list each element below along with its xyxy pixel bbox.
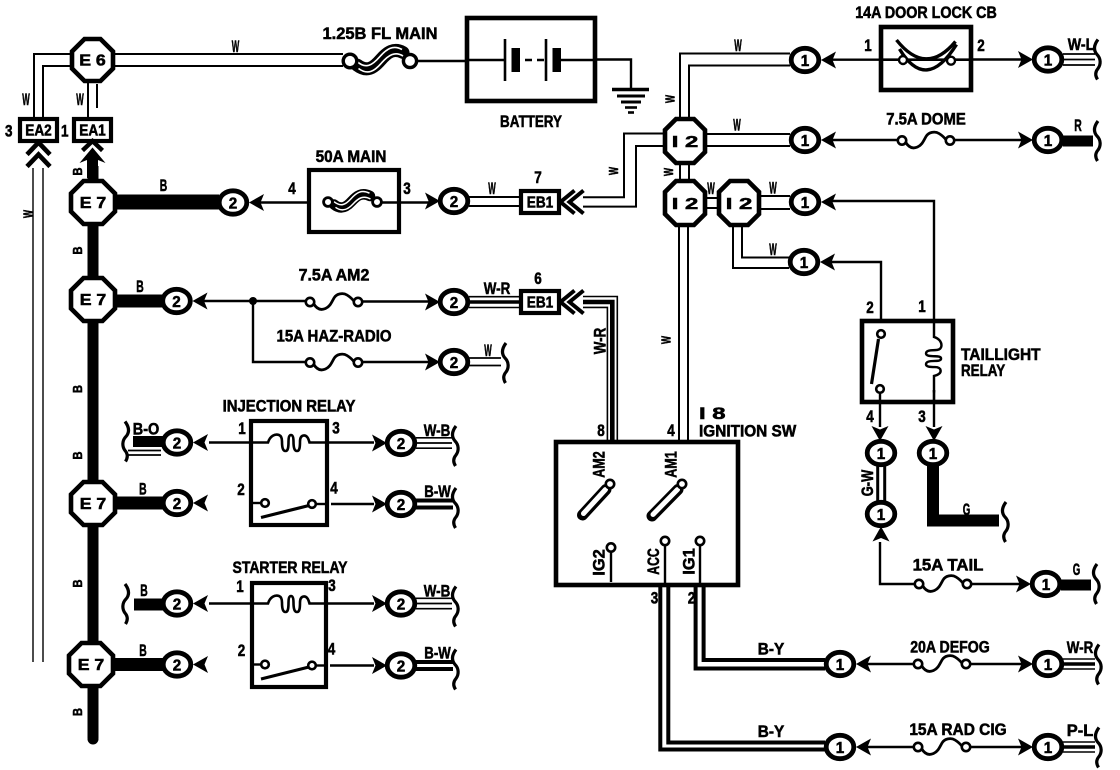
curl W-L: [1094, 40, 1100, 80]
arrow left inj2: [193, 495, 208, 512]
curl B-O: [123, 422, 129, 462]
arrow left row2: [193, 293, 208, 310]
arrow right st1: [372, 595, 387, 612]
svg-text:E 7: E 7: [80, 496, 107, 513]
svg-text:W: W: [733, 117, 741, 135]
svg-text:4: 4: [667, 422, 675, 440]
svg-text:W-B: W-B: [424, 422, 451, 440]
stub W-B st1: [416, 598, 452, 608]
coil K3: [926, 321, 941, 402]
wire battery to ground: [595, 60, 631, 89]
arrow right inj2: [372, 496, 387, 513]
svg-text:15A TAIL: 15A TAIL: [913, 557, 984, 575]
wire W-R to EB1: [469, 297, 521, 308]
arrow left dome: [821, 132, 836, 149]
svg-text:E 7: E 7: [78, 657, 105, 674]
fuse 20A DEFOG: [914, 656, 970, 672]
connector 2 st1 right: [387, 592, 415, 615]
arrow right doorlock: [1018, 51, 1033, 68]
svg-text:W: W: [484, 342, 492, 360]
connector 2 st1 left: [163, 592, 191, 615]
arrow right dome: [1018, 132, 1033, 149]
svg-text:B: B: [140, 582, 148, 600]
svg-text:IG2: IG2: [591, 549, 609, 576]
ground G1: [612, 90, 649, 113]
connector 1 defog left: [826, 652, 854, 675]
svg-text:2: 2: [977, 37, 985, 55]
svg-text:W-R: W-R: [484, 280, 511, 298]
arrow right defog: [1018, 656, 1033, 673]
wire row3 to relay pin1: [832, 201, 934, 321]
svg-text:4: 4: [866, 408, 874, 426]
arrow left defog: [856, 656, 871, 673]
svg-text:B: B: [70, 708, 85, 716]
arrow right inj1: [372, 435, 387, 452]
stub W-R defog: [1063, 659, 1095, 669]
connector 1 gw top: [867, 441, 895, 464]
switch K2: [252, 661, 326, 679]
svg-text:W: W: [707, 180, 715, 198]
stub G thick tail: [1061, 580, 1091, 591]
wire to 50A box: [260, 201, 324, 203]
wire fuse to arrow row2: [362, 300, 429, 302]
svg-text:6: 6: [534, 270, 542, 288]
svg-text:G-W: G-W: [859, 469, 877, 496]
arrow right radcig: [1018, 739, 1033, 756]
svg-text:3: 3: [918, 408, 926, 426]
connector 2 row2 left: [163, 289, 191, 312]
svg-text:AM1: AM1: [663, 451, 681, 478]
svg-text:I 2: I 2: [672, 196, 699, 213]
wire I2no3 to row3 conn: [759, 196, 790, 209]
svg-text:G: G: [1073, 561, 1081, 579]
svg-text:B: B: [70, 385, 85, 393]
svg-text:1: 1: [236, 578, 244, 596]
wire W-R EB1-6 to ignition pin8: [583, 297, 617, 443]
connector 1 tail: [1032, 572, 1060, 595]
connector 1 gw bottom: [867, 502, 895, 525]
arrow left radcig: [856, 739, 871, 756]
AM1 contact: [652, 480, 686, 516]
stub B st1: [134, 599, 163, 611]
svg-text:1.25B FL MAIN: 1.25B FL MAIN: [323, 25, 438, 43]
connector EB1 row2: [521, 291, 559, 313]
connector 2 row1 right: [440, 189, 468, 212]
wire pin3 down arrow: [926, 402, 943, 441]
svg-text:1: 1: [61, 123, 69, 141]
trunk wire B: [88, 166, 99, 745]
connector 1 dome left: [791, 128, 819, 151]
svg-text:B: B: [160, 177, 168, 195]
curl B-W inj2: [452, 488, 458, 528]
wire FL to battery: [417, 60, 467, 62]
arrow left st2: [193, 656, 208, 673]
wire st2 right: [330, 664, 374, 666]
connector 2 haz: [440, 350, 468, 373]
chevrons EB1-7: [561, 191, 584, 214]
AM2 contact: [583, 480, 615, 515]
svg-text:B: B: [70, 168, 85, 176]
stub B-W inj2: [416, 501, 453, 508]
IG1 contact: [696, 537, 704, 585]
wire B-Y IG1 to defog: [696, 585, 825, 669]
wire fuse to arrow haz: [362, 361, 429, 363]
svg-text:B-W: B-W: [424, 483, 451, 501]
svg-text:B-W: B-W: [424, 645, 451, 663]
svg-text:8: 8: [597, 422, 605, 440]
fusible link 1.25B FL MAIN: [343, 47, 416, 72]
coil K2: [251, 596, 327, 612]
arrow left doorlock: [821, 52, 836, 69]
svg-text:E 6: E 6: [79, 53, 106, 70]
svg-text:EB1: EB1: [527, 195, 554, 212]
svg-text:W: W: [21, 210, 36, 218]
relay box K1: [251, 421, 327, 525]
wire W from E6 to fusible link: [113, 54, 343, 66]
left thin pair down: [33, 168, 43, 662]
wire st1 right: [326, 602, 374, 604]
connector 1 radcig right: [1034, 735, 1062, 758]
wire gw to tail fuse: [880, 542, 914, 584]
arrow right haz: [425, 354, 440, 371]
connector 1 g top: [919, 441, 947, 464]
connector 1 doorlock right: [1034, 48, 1062, 71]
svg-text:3: 3: [332, 420, 340, 438]
svg-text:IG1: IG1: [681, 548, 699, 575]
connector I2 no3: [719, 181, 759, 225]
arrow right tail: [1016, 576, 1031, 593]
arrow left row1: [249, 194, 264, 211]
svg-text:BATTERY: BATTERY: [500, 113, 562, 131]
wire CB to arrow: [971, 58, 1022, 60]
wire fuse to arrow: [954, 139, 1022, 141]
arrow up gw: [873, 527, 890, 542]
coil K1: [251, 435, 327, 451]
stub W haz: [469, 358, 501, 366]
svg-text:B: B: [70, 247, 85, 255]
connector E7 row1: [71, 181, 115, 224]
IG2 contact: [607, 543, 615, 582]
fuse 15A RAD CIG: [914, 739, 970, 755]
svg-text:B-Y: B-Y: [758, 641, 785, 659]
connector EB1 row1: [521, 191, 559, 213]
arrow up into EA1: [80, 141, 106, 178]
arrow right st2: [372, 657, 387, 674]
svg-text:I 2: I 2: [726, 196, 753, 213]
wire EB1-7 to I2 no1: [583, 134, 665, 207]
fuse 15A TAIL: [915, 576, 971, 592]
svg-text:3: 3: [651, 590, 659, 608]
svg-text:3: 3: [328, 577, 336, 595]
svg-text:1: 1: [864, 37, 872, 55]
svg-text:20A DEFOG: 20A DEFOG: [910, 639, 990, 657]
connector 1 doorlock left: [791, 48, 819, 71]
svg-text:7.5A DOME: 7.5A DOME: [886, 111, 966, 129]
wire to fuse defog: [867, 663, 916, 665]
svg-text:ACC: ACC: [645, 548, 663, 575]
arrow right row2: [425, 294, 440, 311]
connector 1 row4: [790, 250, 818, 273]
circuit breaker CB: [881, 27, 971, 90]
connector E7 row3: [71, 482, 115, 525]
svg-text:B-O: B-O: [133, 421, 160, 439]
wire B thick st2: [113, 658, 164, 671]
wire branch to HAZ fuse: [253, 301, 308, 362]
svg-text:W: W: [76, 91, 84, 109]
svg-text:EB1: EB1: [527, 295, 554, 312]
ignition box S1: [556, 442, 738, 585]
svg-text:AM2: AM2: [591, 451, 609, 478]
arrow left inj1: [193, 434, 208, 451]
svg-text:B: B: [139, 481, 147, 499]
wire I2no1 to I2no2: [680, 163, 689, 181]
curl G: [1002, 502, 1008, 542]
connector 1 dome right: [1034, 128, 1062, 151]
curl P-L: [1095, 728, 1101, 768]
relay box K3: [862, 321, 953, 402]
relay box K2: [252, 583, 326, 687]
svg-text:W: W: [659, 336, 674, 344]
wire inj1 left: [209, 441, 251, 443]
connector 2 inj1 right: [387, 431, 415, 454]
svg-text:B: B: [139, 642, 147, 660]
svg-text:STARTER RELAY: STARTER RELAY: [233, 559, 348, 577]
wire 50A to arrow: [381, 201, 429, 203]
curl W-B st1: [452, 587, 458, 627]
wire B thick row1: [115, 195, 219, 210]
svg-text:7: 7: [534, 169, 542, 187]
wire E6 bottom to EA1: [88, 81, 97, 119]
curl W-B inj1: [452, 426, 458, 466]
svg-text:W: W: [661, 168, 676, 176]
wire G-W: [878, 465, 885, 502]
fusible link 50A MAIN: [309, 170, 399, 232]
wire inj2 right: [331, 503, 374, 505]
wire to fuse radcig: [867, 746, 916, 748]
svg-text:B: B: [70, 580, 85, 588]
svg-text:3: 3: [403, 180, 411, 198]
svg-text:I 2: I 2: [672, 134, 699, 151]
connector E7 row4: [69, 643, 113, 686]
svg-text:W: W: [734, 37, 742, 55]
curl haz: [502, 343, 508, 383]
connector 1 radcig left: [826, 735, 854, 758]
svg-text:E 7: E 7: [80, 292, 107, 309]
wire inj1 right: [327, 441, 374, 443]
wire fuse to arrow tail: [971, 583, 1020, 585]
svg-text:RELAY: RELAY: [961, 362, 1005, 380]
svg-text:2: 2: [238, 642, 246, 660]
connector E6: [72, 39, 113, 81]
svg-text:W: W: [663, 95, 678, 103]
svg-text:E 7: E 7: [80, 195, 107, 212]
switch K3: [872, 330, 885, 402]
svg-text:P-L: P-L: [1067, 722, 1094, 740]
svg-text:B: B: [136, 278, 144, 296]
svg-text:1: 1: [918, 298, 926, 316]
svg-text:B-Y: B-Y: [758, 723, 785, 741]
svg-text:W: W: [232, 38, 240, 56]
svg-text:2: 2: [866, 299, 874, 317]
curl G tail: [1093, 564, 1099, 604]
svg-text:W: W: [488, 180, 496, 198]
connector EA1: [74, 119, 111, 141]
svg-text:G: G: [963, 501, 971, 519]
svg-text:15A HAZ-RADIO: 15A HAZ-RADIO: [277, 328, 392, 346]
wire E6 left to EA2: [34, 54, 72, 119]
svg-text:2: 2: [237, 481, 245, 499]
wire B thick row2: [115, 295, 164, 308]
arrow left row4: [820, 254, 835, 271]
connector 2 inj1 left: [163, 431, 191, 454]
svg-text:B: B: [70, 452, 85, 460]
wire G thick: [933, 465, 999, 521]
wire to CB box: [832, 59, 885, 61]
wire I2no2 down to ignition pin4: [679, 225, 688, 442]
svg-text:IGNITION SW: IGNITION SW: [699, 423, 797, 441]
svg-text:I 8: I 8: [699, 405, 726, 423]
svg-text:W: W: [22, 91, 30, 109]
switch K1: [251, 499, 327, 517]
wire I2no3 down to row4 conn: [733, 225, 789, 268]
svg-text:W-R: W-R: [1067, 639, 1094, 657]
wire to AM2 fuse: [204, 300, 309, 302]
fuse 15A HAZ-RADIO: [306, 354, 362, 370]
wire fuse to arrow defog: [970, 663, 1022, 665]
connector 1 defog right: [1034, 652, 1062, 675]
svg-text:W-B: W-B: [424, 583, 451, 601]
junction dot: [249, 297, 257, 305]
svg-text:4: 4: [330, 480, 338, 498]
stub R thick: [1063, 136, 1093, 147]
wire B thick inj2: [115, 497, 164, 510]
wire row4 to relay pin2: [831, 262, 881, 321]
svg-text:INJECTION RELAY: INJECTION RELAY: [223, 398, 356, 416]
svg-text:7.5A AM2: 7.5A AM2: [299, 267, 370, 285]
connector 2 st2 left: [163, 653, 191, 676]
svg-text:W-L: W-L: [1068, 36, 1095, 54]
wire st1 left: [209, 602, 252, 604]
connector I2 no1: [665, 119, 705, 163]
connector 2 row1 left: [219, 191, 247, 214]
connector 2 inj2 left: [163, 491, 191, 514]
svg-text:14A DOOR LOCK CB: 14A DOOR LOCK CB: [855, 4, 997, 22]
arrow left row3: [821, 194, 836, 211]
svg-text:4: 4: [288, 180, 296, 198]
wire fuse to arrow radcig: [970, 746, 1022, 748]
svg-text:15A RAD CIG: 15A RAD CIG: [909, 721, 1006, 739]
svg-text:W: W: [769, 180, 777, 198]
wire to fuse: [832, 139, 900, 141]
wire pin4 down arrow: [872, 402, 889, 441]
connector EA2: [20, 119, 57, 141]
svg-text:W-R: W-R: [592, 328, 610, 355]
connector 2 row2 right: [440, 290, 468, 313]
wire W top to door lock: [680, 54, 790, 120]
wire I2no1 to dome: [705, 134, 790, 146]
wire W to EB1 row1: [469, 197, 521, 206]
svg-text:4: 4: [328, 641, 336, 659]
chevrons below EA2: [27, 143, 50, 167]
curl W-R defog: [1095, 645, 1101, 685]
ACC contact: [661, 537, 669, 585]
wire B-Y ACC to radcig: [660, 585, 825, 750]
connector E7 row2: [71, 278, 115, 321]
svg-text:EA1: EA1: [79, 123, 106, 140]
stub B-O: [128, 442, 163, 456]
curl R: [1094, 121, 1100, 161]
curl B-W st2: [452, 650, 458, 690]
fuse 7.5A AM2: [306, 294, 362, 310]
fuse 7.5A DOME: [898, 132, 954, 148]
svg-text:1: 1: [238, 420, 246, 438]
connector 2 inj2 right: [387, 492, 415, 515]
stub W-L: [1063, 54, 1095, 65]
battery B1: [467, 18, 595, 101]
chevrons EB1-6: [561, 291, 584, 314]
curl B st1: [123, 584, 129, 624]
connector 1 row3: [791, 190, 819, 213]
arrow right row1: [425, 193, 440, 210]
stub W-B inj1: [416, 438, 452, 448]
svg-text:W: W: [769, 241, 777, 259]
svg-text:R: R: [1074, 117, 1082, 135]
connector 2 st2 right: [387, 654, 415, 677]
svg-text:3: 3: [5, 123, 13, 141]
svg-text:W: W: [606, 167, 621, 175]
arrow left st1: [193, 595, 208, 612]
connector I2 no2: [665, 181, 705, 225]
stub B-W st2: [416, 662, 453, 669]
svg-text:EA2: EA2: [25, 123, 52, 140]
wire I2no2 to I2no3: [705, 198, 719, 208]
stub P-L: [1063, 742, 1095, 752]
svg-text:50A MAIN: 50A MAIN: [316, 148, 387, 166]
